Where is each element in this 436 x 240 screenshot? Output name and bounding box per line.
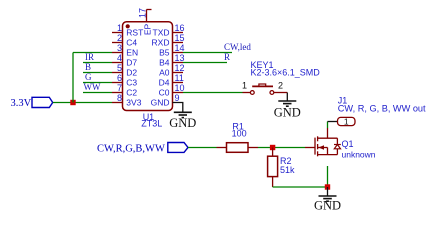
- svg-text:G: G: [85, 72, 92, 82]
- port 3.3V: [11, 97, 53, 109]
- U1 pin 17 (top): [147, 10, 152, 22]
- Q1 value unknown: [342, 149, 376, 159]
- svg-text:CW,R,G,B,WW: CW,R,G,B,WW: [97, 143, 165, 154]
- svg-text:13: 13: [175, 53, 185, 63]
- svg-text:B4: B4: [159, 58, 170, 68]
- svg-text:3V3: 3V3: [126, 98, 141, 108]
- svg-text:D4: D4: [159, 78, 170, 88]
- U1 right pin numbers 16-9: [175, 23, 185, 103]
- U1 left pin stubs 1-8: [112, 33, 123, 103]
- junction at R2 top node: [270, 145, 275, 150]
- svg-text:1: 1: [242, 80, 247, 90]
- R2 value 51k: [280, 165, 295, 175]
- Q1 reference designator: [342, 139, 354, 149]
- junction at source GND node: [325, 184, 330, 189]
- svg-text:4: 4: [117, 53, 122, 63]
- svg-text:GND: GND: [151, 98, 170, 108]
- svg-text:unknown: unknown: [342, 149, 376, 159]
- svg-text:A0: A0: [159, 68, 170, 78]
- wire to pin 3 EN: [73, 52, 112, 54]
- svg-text:GND: GND: [274, 106, 301, 120]
- IC U1 body: [123, 22, 173, 111]
- svg-text:C4: C4: [126, 38, 137, 48]
- net label R + wire on pin 13: [183, 52, 230, 63]
- svg-text:C3: C3: [126, 78, 137, 88]
- U1 reference designator: [143, 112, 155, 122]
- U1 right pin names: [151, 28, 170, 108]
- svg-text:C0: C0: [159, 88, 170, 98]
- R1 value 100: [232, 128, 247, 138]
- net label WW + wire to pin 7: [83, 82, 112, 93]
- svg-text:1: 1: [344, 116, 349, 126]
- svg-text:D2: D2: [126, 68, 137, 78]
- svg-text:2: 2: [117, 33, 122, 43]
- svg-text:CW, R, G, B, WW out: CW, R, G, B, WW out: [338, 104, 426, 114]
- R2 reference designator: [280, 156, 292, 166]
- svg-text:11: 11: [175, 73, 184, 83]
- wire R1 to Q1 gate: [258, 147, 305, 149]
- svg-text:CW,led: CW,led: [224, 42, 251, 52]
- net label B + wire to pin 5: [83, 62, 112, 73]
- J1 reference designator: [338, 95, 348, 105]
- svg-text:Q1: Q1: [342, 139, 354, 149]
- wire R2 bottom to GND node: [273, 186, 328, 188]
- KEY1 reference designator: [251, 60, 274, 70]
- U1 right pin stubs 9-16: [173, 33, 184, 93]
- net label G + wire to pin 6: [83, 72, 112, 83]
- svg-text:17: 17: [138, 8, 148, 18]
- wire pin 10 to KEY1: [183, 92, 243, 94]
- svg-text:15: 15: [175, 33, 185, 43]
- svg-text:EN: EN: [126, 48, 138, 58]
- svg-text:B: B: [85, 62, 91, 72]
- U1 pin 1 marker dot: [126, 24, 130, 28]
- net label CW,led + wire on pin 14: [183, 42, 251, 53]
- wire Q1 drain up to J1: [327, 122, 329, 129]
- svg-text:51k: 51k: [280, 165, 295, 175]
- wire 3.3V to pin 8: [53, 102, 112, 104]
- svg-text:16: 16: [175, 23, 185, 33]
- R1 reference designator: [232, 121, 244, 131]
- svg-text:K2-3.6×6.1_SMD: K2-3.6×6.1_SMD: [251, 68, 321, 78]
- KEY1 pin number 2: [278, 80, 283, 90]
- svg-text:7: 7: [117, 83, 122, 93]
- U1 pin 17 name EP: [142, 24, 152, 36]
- U1 value ZT3L: [141, 119, 162, 129]
- svg-text:10: 10: [175, 83, 185, 93]
- svg-text:GND: GND: [314, 199, 341, 213]
- svg-text:12: 12: [175, 63, 185, 73]
- transistor Q1 (N-MOSFET): [305, 128, 341, 156]
- wire port to R1: [188, 147, 217, 149]
- svg-text:9: 9: [175, 93, 180, 103]
- svg-text:D7: D7: [126, 58, 137, 68]
- svg-text:R: R: [224, 52, 230, 62]
- U1 left pin names: [126, 28, 143, 108]
- junction at 3.3V node: [70, 100, 75, 105]
- U1 left pin numbers 1-8: [117, 23, 122, 103]
- svg-text:100: 100: [232, 128, 247, 138]
- svg-text:8: 8: [117, 93, 122, 103]
- connector J1 pin 1: [328, 116, 356, 126]
- svg-text:1: 1: [117, 23, 122, 33]
- svg-text:B5: B5: [159, 48, 170, 58]
- svg-text:6: 6: [117, 73, 122, 83]
- svg-text:3: 3: [117, 43, 122, 53]
- wire Q1 source down: [327, 166, 329, 187]
- U1 pin number 17: [138, 8, 148, 18]
- J1 value CW, R, G, B, WW out: [338, 104, 426, 114]
- svg-text:2: 2: [278, 80, 283, 90]
- ground GND at U1 pin 9: [169, 103, 196, 130]
- port CW,R,G,B,WW: [97, 143, 188, 155]
- pushbutton KEY1: [243, 84, 288, 94]
- svg-text:EP: EP: [142, 24, 152, 36]
- svg-text:WW: WW: [84, 82, 101, 92]
- net label IR + wire to pin 4: [83, 52, 112, 63]
- ground GND at bottom: [314, 187, 341, 213]
- resistor R2: [268, 148, 278, 188]
- wire 3.3V node up to EN: [72, 53, 74, 103]
- svg-text:RXD: RXD: [152, 38, 170, 48]
- svg-text:C2: C2: [126, 88, 137, 98]
- svg-text:RST: RST: [126, 28, 143, 38]
- KEY1 pin number 1: [242, 80, 247, 90]
- svg-text:TXD: TXD: [153, 28, 170, 38]
- svg-text:3.3V: 3.3V: [11, 98, 32, 109]
- KEY1 value K2-3.6x6.1_SMD: [251, 68, 321, 78]
- resistor R1: [217, 143, 259, 153]
- svg-text:IR: IR: [85, 52, 94, 62]
- svg-text:ZT3L: ZT3L: [141, 119, 162, 129]
- ground GND at KEY1 pin 2: [274, 93, 301, 120]
- svg-text:5: 5: [117, 63, 122, 73]
- svg-text:GND: GND: [169, 116, 196, 130]
- svg-text:14: 14: [175, 43, 185, 53]
